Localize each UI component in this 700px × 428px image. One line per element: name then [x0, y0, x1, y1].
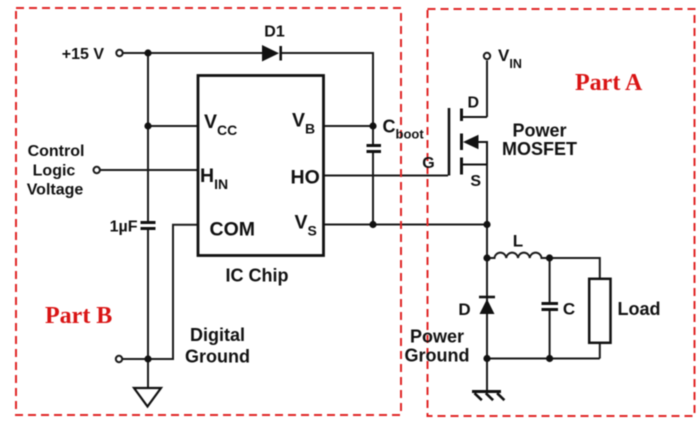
diode D1	[262, 45, 281, 62]
svg-text:Part A: Part A	[575, 70, 643, 96]
source bar	[462, 164, 488, 166]
svg-text:C: C	[563, 300, 575, 319]
load resistor	[589, 279, 610, 343]
wire Cboot bottom to Vs rail	[372, 153, 374, 225]
svg-text:Ground: Ground	[185, 346, 250, 366]
svg-text:Digital: Digital	[190, 325, 245, 345]
svg-text:Logic: Logic	[33, 162, 76, 179]
wire inductor to load corner	[550, 258, 600, 279]
mosfet body arrow	[463, 135, 479, 149]
wire diode to Cboot top corner	[281, 53, 373, 144]
wire Vs to source node	[324, 224, 488, 226]
capacitor 1uF	[141, 223, 156, 229]
svg-text:Power: Power	[410, 327, 464, 347]
wire main left vertical lower	[147, 230, 149, 387]
body wire to source	[478, 142, 488, 165]
wire +15V to diode	[123, 52, 262, 54]
svg-text:G: G	[422, 155, 434, 172]
node Cboot-Vs junction	[369, 221, 376, 228]
digital ground symbol	[134, 388, 161, 407]
wire Vin drop	[486, 61, 488, 118]
inductor L	[487, 253, 550, 258]
svg-text:D1: D1	[264, 23, 285, 40]
wire load bottom	[599, 343, 601, 359]
wire source node vertical	[486, 165, 488, 392]
wire Vcc pin	[148, 125, 198, 127]
svg-text:+15 V: +15 V	[62, 46, 105, 63]
Part A dashed box	[428, 9, 695, 416]
svg-text:S: S	[470, 173, 481, 190]
node source-Vs junction	[483, 221, 490, 228]
capacitor C	[542, 304, 559, 310]
node +15V junction	[144, 49, 151, 56]
terminal +15V	[116, 50, 122, 56]
svg-text:MOSFET: MOSFET	[502, 139, 577, 159]
svg-text:1µF: 1µF	[110, 219, 138, 236]
diode D freewheel	[479, 297, 495, 314]
terminal control logic	[94, 167, 100, 173]
svg-text:IC Chip: IC Chip	[226, 266, 289, 286]
svg-text:Ground: Ground	[405, 346, 470, 366]
svg-text:Load: Load	[618, 299, 661, 319]
digital ground terminal	[116, 356, 122, 362]
IC chip U1	[198, 76, 324, 256]
node cap-rail junction	[546, 355, 553, 362]
wire ground rail	[487, 358, 600, 360]
node inductor-cap junction	[546, 254, 553, 261]
wire filter cap drop	[549, 258, 551, 359]
capacitor Cboot	[367, 146, 382, 152]
wire HO to gate	[324, 175, 449, 177]
node Vcc junction	[144, 122, 151, 129]
junction node dots	[144, 49, 553, 362]
channel segments	[460, 109, 463, 175]
Part B dashed box	[16, 8, 401, 415]
svg-text:HO: HO	[291, 167, 320, 189]
svg-text:COM: COM	[210, 219, 256, 241]
node Vb-Cboot junction	[369, 122, 376, 129]
svg-text:D: D	[458, 300, 470, 319]
node switch-inductor junction	[483, 254, 490, 261]
gate line	[448, 108, 451, 176]
svg-text:Part B: Part B	[45, 303, 112, 329]
transistor Q1 power MOSFET	[449, 108, 487, 176]
svg-text:Power: Power	[512, 121, 566, 141]
power ground symbol	[472, 392, 504, 401]
svg-text:Control: Control	[28, 143, 85, 160]
node diode-rail junction	[483, 355, 490, 362]
svg-text:D: D	[468, 95, 480, 112]
wire Hin pin	[100, 169, 198, 171]
wire main left vertical upper	[147, 53, 149, 221]
node digital ground junction	[144, 355, 151, 362]
svg-text:Voltage: Voltage	[27, 182, 84, 199]
drain bar	[462, 116, 488, 118]
terminal Vin	[484, 53, 490, 59]
wire Vb pin	[324, 125, 374, 127]
wire COM return	[123, 225, 198, 359]
svg-text:L: L	[513, 232, 523, 251]
